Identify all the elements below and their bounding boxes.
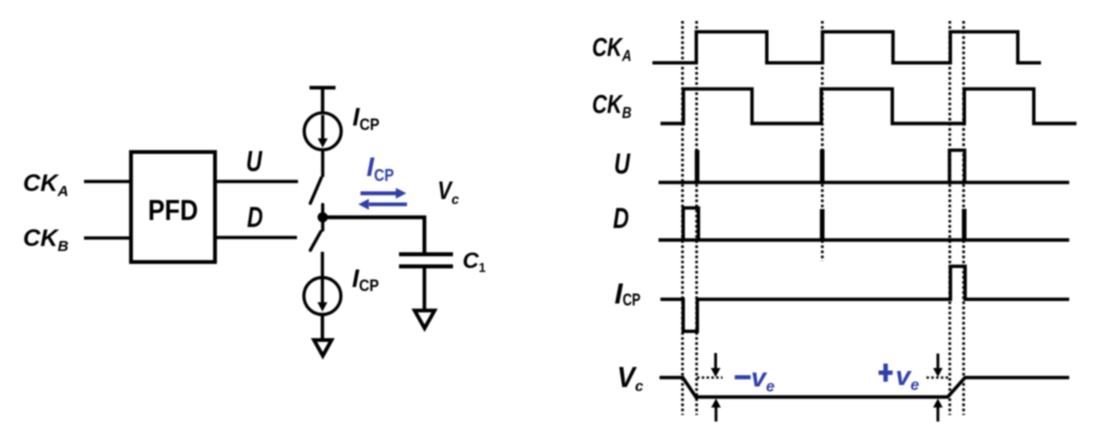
svg-text:U: U <box>614 149 631 181</box>
ground (below capacitor C1) <box>415 311 435 329</box>
waveform U pulse 1 (narrow spike) <box>695 150 700 182</box>
dotted timeline marker t5 (CKB rise lags) <box>962 21 965 415</box>
dotted timeline marker t4 (CKA rise leads) <box>948 21 951 415</box>
wire CK_A input to PFD <box>84 180 131 183</box>
svg-text:D: D <box>613 203 629 235</box>
current direction arrow right (blue) <box>361 188 407 199</box>
waveform D pulse 2 (narrow spike) <box>820 209 825 240</box>
capacitor C1 plates <box>399 254 453 266</box>
svg-text:PFD: PFD <box>148 195 198 227</box>
arrow marker down (right +ve) <box>933 354 943 378</box>
svg-text:D: D <box>247 202 263 234</box>
dotted timeline marker t1 (CKB rise) <box>681 21 684 415</box>
current source I2 (bottom, ICP) <box>304 278 341 315</box>
wire current source I1 to switch S1 <box>321 150 324 177</box>
current direction arrow left (blue) <box>358 199 407 210</box>
dotted level reference (right, at Vc high) <box>927 376 949 378</box>
ground (below current source I2) <box>314 340 332 356</box>
power rail (supply bar above current source I1) <box>310 88 336 113</box>
waveform I_CP <box>660 266 1069 331</box>
PFD block U1 <box>131 152 215 262</box>
label +v_e (blue) <box>879 361 920 394</box>
node Vc junction (dot) <box>318 212 328 222</box>
svg-text:U: U <box>246 146 263 178</box>
wire capacitor C1 to ground <box>423 266 427 310</box>
waveform CK_B <box>661 89 1077 124</box>
switch S2 (controlled by D) <box>310 222 322 250</box>
dotted timeline marker t3 (aligned edges) <box>821 21 824 261</box>
waveform V_c <box>660 378 1070 397</box>
dotted timeline marker t2 (CKA rise) <box>695 21 698 415</box>
wire switch S2 to current source I2 <box>321 252 324 278</box>
waveform U pulse 3 (wide) <box>950 150 965 182</box>
waveform CK_A <box>652 32 1041 63</box>
label -v_e (blue) <box>735 363 775 396</box>
waveform D pulse 3 (narrow spike) <box>962 209 967 240</box>
wire D output of PFD to switch S2 <box>215 236 297 239</box>
arrow marker down (left -ve) <box>711 353 721 377</box>
waveform U baseline <box>659 181 1070 184</box>
wire node to capacitor C1 (Vc net) <box>323 217 425 253</box>
waveform D baseline <box>659 238 1070 241</box>
wire U output of PFD to switch S1 <box>215 180 298 183</box>
wire CK_B input to PFD <box>84 236 131 239</box>
net label CK_A (schematic input) <box>23 170 69 200</box>
waveform D pulse 1 (wide) <box>683 208 698 240</box>
waveform U pulse 2 (narrow spike) <box>820 150 825 183</box>
arrow marker up (left -ve) <box>711 399 721 422</box>
arrow marker up (right +ve) <box>933 399 943 422</box>
wire current source I2 to ground <box>321 313 324 340</box>
switch S1 (controlled by U) <box>310 178 322 213</box>
net label CK_B (schematic input) <box>23 225 69 255</box>
dotted level reference (left, at Vc high) <box>697 376 723 378</box>
current source I1 (top, ICP) <box>304 113 341 150</box>
